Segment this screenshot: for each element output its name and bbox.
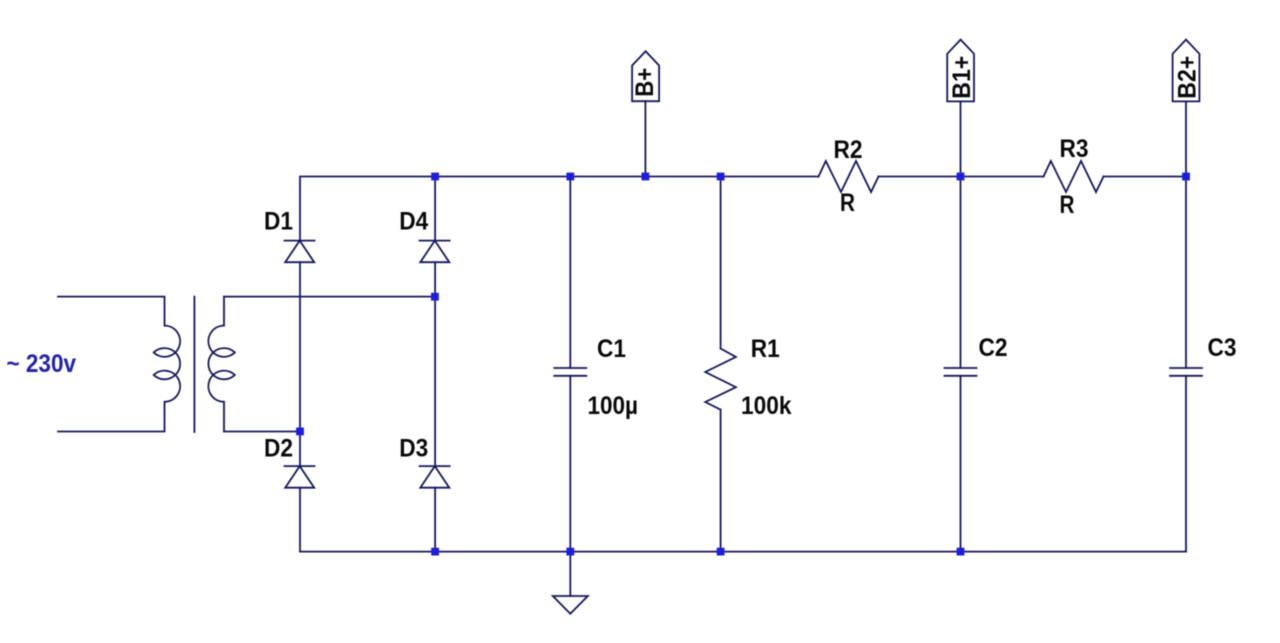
node B+ top bus: [642, 173, 650, 181]
node C1 top bus: [566, 173, 574, 181]
svg-text:C3: C3: [1208, 334, 1237, 362]
capacitor C3: [1170, 368, 1202, 376]
wire right branch middle: [434, 262, 436, 466]
diode D4: [420, 241, 450, 263]
resistor R1: [705, 349, 736, 410]
svg-text:B2+: B2+: [1173, 56, 1201, 99]
svg-text:100k: 100k: [741, 392, 792, 420]
transformer primary winding: [58, 297, 180, 432]
transformer core: [193, 297, 195, 432]
svg-text:B+: B+: [631, 68, 659, 97]
svg-text:R2: R2: [834, 136, 863, 164]
svg-text:C1: C1: [597, 335, 626, 363]
svg-text:R: R: [840, 189, 855, 217]
wire ground stem: [569, 552, 571, 596]
flag B+: [632, 51, 659, 101]
capacitor C2: [945, 368, 977, 376]
wire C3 branch top: [1185, 177, 1187, 369]
node ground bottom bus: [566, 548, 574, 556]
node B2+ top bus: [1182, 173, 1190, 181]
wire secondary bottom lead: [224, 431, 300, 433]
svg-text:~ 230v: ~ 230v: [7, 350, 77, 378]
wire B1+ stem: [960, 101, 962, 176]
wire C1 branch bottom: [569, 376, 571, 552]
wire C3 branch bottom: [1185, 376, 1187, 552]
capacitor C1: [554, 368, 586, 376]
resistor R3: [1044, 161, 1104, 192]
wire C2 branch top: [960, 177, 962, 369]
wire bottom bus: [300, 551, 1186, 553]
svg-text:R: R: [1060, 191, 1075, 219]
node secondary bottom to bridge: [296, 428, 304, 436]
wire B+ stem: [644, 101, 646, 176]
wire left branch middle: [299, 262, 301, 466]
flag B1+: [947, 40, 974, 102]
wire top bus left segment: [300, 177, 819, 241]
svg-text:D3: D3: [399, 435, 428, 463]
svg-text:100µ: 100µ: [588, 392, 639, 420]
svg-text:R1: R1: [751, 335, 780, 363]
svg-text:D2: D2: [264, 435, 293, 463]
node junction squares: [296, 173, 1190, 556]
node D4 top bus: [431, 173, 439, 181]
wire R1 branch top: [720, 177, 722, 349]
node R1 top bus: [717, 173, 725, 181]
transformer secondary winding: [208, 297, 234, 432]
wire left branch bottom: [299, 488, 301, 552]
node C2 bottom bus: [957, 548, 965, 556]
node R1 bottom bus: [717, 548, 725, 556]
svg-text:C2: C2: [979, 334, 1008, 362]
wire C2 branch bottom: [960, 376, 962, 552]
wire right branch top: [434, 177, 436, 241]
node B1+ top bus: [957, 173, 965, 181]
svg-text:D1: D1: [264, 208, 293, 236]
diode D1: [285, 241, 315, 263]
resistor R2: [819, 161, 879, 192]
wire B2+ stem: [1185, 101, 1187, 176]
wire R1 branch bottom: [720, 410, 722, 552]
flag B2+: [1173, 40, 1200, 102]
ground: [553, 596, 588, 614]
node secondary top to bridge: [431, 293, 439, 301]
wire top bus right segment: [1104, 176, 1187, 178]
diode D3: [420, 466, 450, 488]
svg-text:R3: R3: [1060, 135, 1089, 163]
svg-text:B1+: B1+: [948, 56, 976, 99]
wire top bus middle segment: [879, 176, 1044, 178]
node D3 bottom bus: [431, 548, 439, 556]
diode D2: [285, 466, 315, 488]
svg-text:D4: D4: [399, 208, 428, 236]
wire secondary top lead: [224, 296, 435, 298]
wire C1 branch top: [569, 177, 571, 369]
wire right branch bottom: [434, 488, 436, 552]
